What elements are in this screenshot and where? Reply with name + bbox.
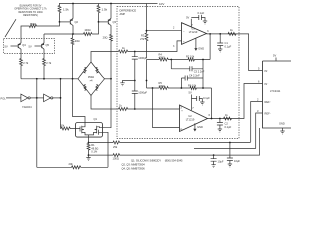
transistor Q5 (PNP in dashed box, right) <box>29 39 50 54</box>
resistor R3 27k <box>140 4 148 59</box>
svg-text:2.7k: 2.7k <box>23 61 29 65</box>
capacitor 0.1uF on U1 out <box>217 34 231 52</box>
svg-text:20k: 20k <box>60 124 65 128</box>
node dot Q2 collector <box>72 3 74 5</box>
svg-text:0.1μF: 0.1μF <box>198 11 205 15</box>
transistor Q2 (top-left NPN) <box>60 4 79 35</box>
capacitor 2.2nF (upper) <box>171 66 204 73</box>
transistor Q4 (PNP in dashed box, left) <box>5 39 27 54</box>
svg-text:U2: U2 <box>188 114 192 118</box>
resistor 2.7k (left) <box>20 54 29 79</box>
svg-text:400Ω: 400Ω <box>159 56 165 60</box>
svg-text:5V: 5V <box>29 44 32 48</box>
wire row y=78.3 <box>21 78 73 80</box>
wire Q5 collector riser <box>43 34 45 39</box>
svg-text:20k: 20k <box>69 162 74 166</box>
resistor 1k (U2 out) <box>224 113 232 120</box>
node dot Q2 base <box>59 21 61 23</box>
svg-text:Q3: Q3 <box>113 20 117 24</box>
svg-text:5V: 5V <box>273 54 276 58</box>
node dot Q3 base <box>98 21 100 23</box>
resistor 20 ohm (left excitation) <box>71 34 80 79</box>
U1 5V bypass <box>186 11 207 27</box>
wire U1 -in <box>147 30 182 32</box>
svg-text:10μF: 10μF <box>234 159 240 163</box>
wire left excitation down to MOSFET <box>73 79 86 123</box>
resistor R1 49.9 0.1% <box>87 143 98 156</box>
svg-text:R2 10k: R2 10k <box>186 55 195 59</box>
svg-text:1.5k: 1.5k <box>102 8 108 12</box>
svg-text:1000pF: 1000pF <box>138 90 147 94</box>
capacitor 2.2nF (lower) <box>181 74 203 81</box>
svg-text:LTC2411: LTC2411 <box>270 89 281 93</box>
svg-text:5V: 5V <box>5 44 8 48</box>
dashed difference amp box <box>117 7 239 139</box>
ground under R1 <box>86 155 90 160</box>
capacitor 0.1uF on U2 out <box>217 119 232 133</box>
note text top-left <box>14 5 47 18</box>
capacitor 1000pF (upper) <box>132 52 148 81</box>
node dot Q3 collector <box>110 3 112 5</box>
resistor 2.7k (right) <box>21 54 73 168</box>
REF- wire <box>256 113 263 149</box>
U2 output row <box>208 84 263 119</box>
svg-text:2.7k: 2.7k <box>46 61 52 65</box>
svg-text:GND: GND <box>197 125 203 129</box>
U2 GND pin <box>194 123 196 128</box>
right gate riser <box>103 132 109 167</box>
LTC2411 ground <box>280 128 284 134</box>
svg-text:5V: 5V <box>186 15 189 19</box>
svg-text:R3: R3 <box>141 34 145 38</box>
LTC2411 <box>257 61 292 128</box>
resistor 1k (U1 out) <box>228 28 236 36</box>
wire drop to 20k gate resistor <box>60 79 62 129</box>
U1 output row <box>207 34 263 71</box>
note pointer line <box>5 19 16 37</box>
svg-text:Q4, Q5: MMBT3906: Q4, Q5: MMBT3906 <box>122 166 146 170</box>
bridge 350 ohm x4 <box>78 62 105 96</box>
inverter 2 (74HC04) <box>44 94 53 102</box>
inverter 1 (74HC04) <box>21 94 32 109</box>
resistor 1.5k (left) <box>58 4 61 22</box>
wire bridge top tap to difference amp <box>91 52 119 63</box>
svg-text:AMP: AMP <box>120 12 126 16</box>
resistor 750 ohm (base feed) <box>21 22 60 39</box>
wire drop to inverter node / bottom row <box>36 79 38 168</box>
U2 5V bypass <box>189 91 211 111</box>
svg-text:0.1%: 0.1% <box>91 150 98 154</box>
svg-text:RESISTORS): RESISTORS) <box>23 14 38 17</box>
dashed box (5V option transistors) <box>4 39 55 54</box>
svg-text:Q1: SILICONIX Si9802DY (8: Q1: SILICONIX Si9802DY (800) 554-5045 <box>131 159 183 163</box>
svg-text:Q2, Q3: MMBT3904: Q2, Q3: MMBT3904 <box>122 163 146 167</box>
row B (REF-) <box>194 148 256 150</box>
svg-text:DIFFERENCE: DIFFERENCE <box>120 9 137 13</box>
svg-text:10μF: 10μF <box>218 160 224 164</box>
svg-text:REF⁻: REF⁻ <box>265 112 272 116</box>
svg-text:REF⁺: REF⁺ <box>265 100 272 104</box>
bottom wire row and 20k (bottom, right gate) <box>37 162 108 169</box>
svg-text:IN⁻: IN⁻ <box>265 82 270 86</box>
svg-text:C2: C2 <box>225 122 229 126</box>
op-amp U1 <box>173 23 209 48</box>
mid cap ladder verticals <box>202 60 204 89</box>
node dot emitter left <box>72 33 74 35</box>
svg-text:20Ω: 20Ω <box>75 39 80 43</box>
svg-text:1000pF: 1000pF <box>138 56 147 60</box>
svg-text:LT1219: LT1219 <box>186 118 195 122</box>
svg-text:400Ω: 400Ω <box>159 84 165 88</box>
10V top rail <box>59 3 158 5</box>
svg-text:0.1μF: 0.1μF <box>225 45 232 49</box>
REF+ wire <box>251 102 263 143</box>
row C (gnd sense) <box>89 128 260 161</box>
svg-text:0.1μF: 0.1μF <box>225 125 232 129</box>
resistor 1k (U1 input) <box>119 46 135 53</box>
svg-text:Q2: Q2 <box>75 20 79 24</box>
bridge right stub <box>105 78 112 80</box>
row A (REF+) <box>89 141 251 149</box>
node Y row: R5 400, R6 10k <box>147 81 212 90</box>
node column continuation <box>146 60 148 89</box>
svg-text:10V: 10V <box>159 2 164 6</box>
bridge left stub <box>73 78 79 80</box>
svg-text:IN⁺: IN⁺ <box>265 69 270 73</box>
svg-text:C3 2.2nF: C3 2.2nF <box>194 69 205 73</box>
riser to U1 out <box>209 34 211 60</box>
svg-text:POL: POL <box>1 97 7 101</box>
svg-text:GND: GND <box>198 46 204 50</box>
wire right excitation down to MOSFET drain <box>103 79 112 128</box>
resistor 100 ohm <box>84 33 92 36</box>
svg-text:0.1μF: 0.1μF <box>203 96 210 100</box>
op-amp U2 <box>180 105 211 132</box>
svg-text:Q1: Q1 <box>94 117 98 121</box>
svg-text:1.5k: 1.5k <box>63 8 69 12</box>
capacitor 1000pF (lower) <box>132 81 148 110</box>
MOSFET right <box>89 126 103 135</box>
capacitor 10uF (row A) <box>227 142 240 167</box>
svg-text:750Ω: 750Ω <box>30 22 36 26</box>
capacitor 10uF (row C) <box>211 154 224 167</box>
svg-text:LT1219: LT1219 <box>189 30 198 34</box>
svg-text:Q4: Q4 <box>22 43 26 47</box>
svg-text:27k: 27k <box>140 37 145 41</box>
notes text <box>122 159 184 171</box>
svg-text:100Ω: 100Ω <box>84 28 90 32</box>
svg-text:C1: C1 <box>225 41 229 45</box>
svg-text:C4 2.2nF: C4 2.2nF <box>189 74 200 78</box>
svg-text:100Ω: 100Ω <box>113 157 119 161</box>
common source down <box>88 135 90 143</box>
svg-text:R6 10k: R6 10k <box>188 84 197 88</box>
wire node Y to U2 -in <box>153 88 180 128</box>
svg-text:5V: 5V <box>189 91 192 95</box>
resistor 20k (top, left gate) <box>60 124 76 130</box>
riser to U2 out <box>211 88 213 119</box>
dual MOSFET Q1 package <box>76 117 103 137</box>
svg-text:25k: 25k <box>113 145 118 149</box>
ground (cap midpoint) <box>120 81 135 86</box>
U1 GND pin <box>195 39 197 49</box>
svg-text:74HC04: 74HC04 <box>22 105 32 109</box>
wire bridge bottom tap <box>91 96 119 110</box>
wire to U1 +in <box>135 41 182 52</box>
svg-text:Q5: Q5 <box>46 43 50 47</box>
resistor 1.5k (right) <box>97 4 100 22</box>
svg-text:GND: GND <box>279 122 285 126</box>
resistor 1k (U2 input) <box>119 104 180 111</box>
MOSFET left <box>76 123 89 135</box>
svg-text:20Ω: 20Ω <box>103 36 108 40</box>
5V tick on LTC2411 <box>273 54 276 61</box>
wire emitter row y=33.5 <box>44 33 84 35</box>
node X row: R4 400, R2 10k <box>147 53 211 62</box>
transistor Q3 (top-right NPN) <box>99 4 117 79</box>
